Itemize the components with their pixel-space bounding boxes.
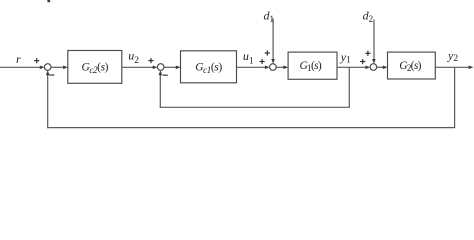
plus sign at S3 (d1 input)	[265, 50, 270, 55]
block Gc2(s)	[68, 51, 122, 84]
stray mark (cropped text above figure)	[47, 0, 50, 2]
block G1(s)	[288, 52, 337, 79]
plus sign at S4 (d2 input)	[365, 51, 370, 56]
plus sign at S4 (horizontal input)	[360, 59, 365, 64]
svg-text:u2: u2	[128, 49, 139, 66]
node y1 tap junction	[348, 67, 350, 107]
wire S4 to block G2	[377, 66, 386, 68]
wire inner feedback rise into S2	[159, 72, 161, 108]
wire outer feedback bottom	[47, 127, 455, 129]
svg-text:G1(s): G1(s)	[300, 60, 322, 73]
wire Gc2 to summing junction S2	[122, 66, 155, 68]
node y2 tap junction	[454, 67, 456, 128]
svg-text:d1: d1	[264, 9, 275, 25]
wire r to summing junction S1	[0, 66, 42, 68]
wire G2 to output y2	[435, 66, 471, 68]
minus sign at S1	[49, 74, 54, 76]
svg-text:r: r	[16, 52, 21, 66]
wire inner feedback bottom	[160, 106, 350, 108]
plus sign at S2	[148, 58, 153, 63]
wire S2 to block Gc1	[164, 66, 178, 68]
summing junction S1	[44, 64, 51, 71]
wire S1 to block Gc2	[51, 66, 66, 68]
block G2(s)	[388, 52, 436, 79]
plus sign at S1	[34, 58, 39, 63]
wire S3 to block G1	[276, 66, 286, 68]
svg-text:G2(s): G2(s)	[399, 60, 421, 73]
svg-text:y1: y1	[340, 50, 351, 65]
wire Gc1 to summing junction S3	[237, 66, 268, 68]
svg-text:d2: d2	[363, 9, 374, 25]
wire G1 to summing junction S4	[337, 66, 368, 68]
svg-text:u1: u1	[243, 49, 254, 66]
wire d1 into S3	[272, 18, 274, 61]
plus sign at S3 (horizontal input)	[260, 59, 265, 64]
summing junction S3	[270, 64, 277, 71]
wire d2 into S4	[373, 20, 375, 62]
wire outer feedback rise into S1	[47, 72, 49, 129]
summing junction S4	[370, 64, 377, 71]
block Gc1(s)	[181, 51, 237, 83]
summing junction S2	[157, 64, 164, 71]
svg-text:y2: y2	[447, 49, 458, 64]
minus sign at S2	[163, 74, 168, 76]
